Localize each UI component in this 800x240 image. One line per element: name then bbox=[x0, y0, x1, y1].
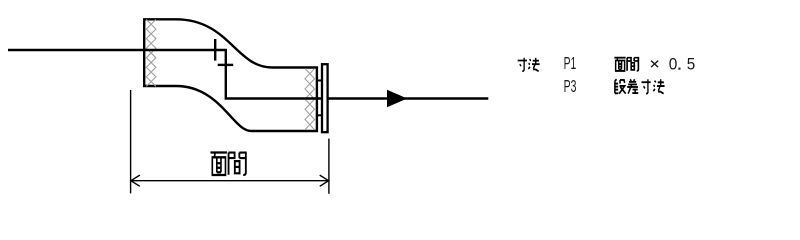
svg-text:5: 5 bbox=[687, 55, 696, 74]
svg-text:0: 0 bbox=[669, 55, 678, 74]
svg-text:P3: P3 bbox=[564, 76, 577, 96]
svg-text:P1: P1 bbox=[564, 53, 577, 73]
